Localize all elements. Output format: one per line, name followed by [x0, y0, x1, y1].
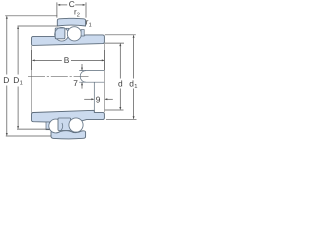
- svg-text:1: 1: [134, 84, 137, 90]
- svg-text:7: 7: [73, 78, 78, 88]
- svg-text:D: D: [3, 75, 9, 85]
- svg-text:B: B: [64, 55, 70, 65]
- svg-text:2: 2: [77, 12, 80, 18]
- svg-text:1: 1: [89, 22, 92, 28]
- svg-text:9: 9: [96, 95, 101, 105]
- svg-text:1: 1: [20, 81, 23, 87]
- svg-text:D: D: [13, 75, 19, 85]
- svg-text:d: d: [118, 78, 123, 88]
